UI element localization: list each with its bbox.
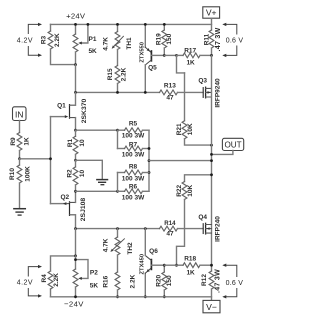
svg-text:4.7K: 4.7K xyxy=(103,37,110,51)
svg-text:Q4: Q4 xyxy=(198,214,207,221)
wire Q6 base line xyxy=(164,264,176,266)
svg-text:150: 150 xyxy=(166,275,173,286)
node jog junction xyxy=(175,54,178,57)
svg-text:4.2V: 4.2V xyxy=(17,37,33,44)
label 2SK370 xyxy=(81,98,88,123)
node Q5 emitter rail junction xyxy=(144,23,147,26)
resistor R15 xyxy=(107,50,128,93)
svg-text:+24V: +24V xyxy=(66,12,86,21)
svg-text:OUT: OUT xyxy=(224,141,241,150)
svg-text:R21: R21 xyxy=(176,123,183,135)
svg-text:10: 10 xyxy=(79,139,86,147)
resistor R9 xyxy=(10,133,31,159)
node bus2 P2 junction xyxy=(74,227,77,230)
wire V+ lead xyxy=(211,18,213,30)
node Q1 source junction xyxy=(74,129,77,132)
svg-text:2.2K: 2.2K xyxy=(121,67,128,81)
node bus R15 junction xyxy=(116,91,119,94)
svg-text:R22: R22 xyxy=(176,184,183,196)
resistor R14 xyxy=(160,220,178,237)
label IRFP240 xyxy=(215,216,222,242)
node P2 wiper junction xyxy=(74,258,77,261)
svg-text:100K: 100K xyxy=(25,166,32,182)
wire lower bus xyxy=(76,228,160,230)
resistor R17 xyxy=(177,47,212,66)
node P1 wiper junction xyxy=(87,23,90,26)
wire OUT lead xyxy=(212,151,233,155)
svg-text:4.7K: 4.7K xyxy=(103,238,110,252)
svg-text:2.2K: 2.2K xyxy=(53,273,60,287)
wire P1 bottom to bus xyxy=(75,65,77,93)
svg-text:.47 3W: .47 3W xyxy=(215,269,222,293)
wire output rail xyxy=(211,55,213,271)
wire R11 to node xyxy=(211,48,213,55)
resistor R10 xyxy=(9,159,32,208)
svg-text:R1: R1 xyxy=(67,138,74,147)
resistor R6 xyxy=(118,184,150,202)
node OUT junction xyxy=(210,153,213,156)
svg-text:R4: R4 xyxy=(41,274,48,283)
node bus2 Q6 junction xyxy=(144,227,147,230)
wire +24V rail xyxy=(51,23,212,25)
port IN xyxy=(13,107,27,121)
node R9/R10 junction xyxy=(18,157,21,160)
svg-text:Q6: Q6 xyxy=(149,248,158,255)
ground mid xyxy=(97,180,108,185)
node bank out junction xyxy=(148,159,151,162)
node R18/R12 junction xyxy=(210,264,213,267)
resistor R5 xyxy=(118,120,150,139)
node out bus rail junction xyxy=(210,159,213,162)
resistor R2 xyxy=(66,160,86,191)
node TH1 top junction xyxy=(116,23,119,26)
svg-text:−24V: −24V xyxy=(64,300,84,309)
node R20 top junction xyxy=(163,264,166,267)
transistor Q2 2SJ108 xyxy=(51,191,76,228)
svg-text:2SJ108: 2SJ108 xyxy=(80,198,87,222)
transistor Q3 IRFP9240 xyxy=(198,77,211,98)
svg-text:R10: R10 xyxy=(9,168,16,180)
node R21 out junction xyxy=(210,144,213,147)
svg-text:P1: P1 xyxy=(89,36,97,43)
svg-text:R7: R7 xyxy=(129,142,138,149)
label 2SJ108 xyxy=(80,198,87,222)
wire IN lead xyxy=(19,121,21,133)
svg-text:1K: 1K xyxy=(186,269,195,276)
svg-text:TH1: TH1 xyxy=(126,37,133,50)
node bus Q5 junction xyxy=(144,91,147,94)
svg-text:ZTX450: ZTX450 xyxy=(139,254,145,275)
svg-text:4.2V: 4.2V xyxy=(17,279,33,286)
port V+ xyxy=(203,7,220,18)
svg-text:IRFP240: IRFP240 xyxy=(215,216,222,242)
svg-text:R8: R8 xyxy=(129,164,138,171)
svg-text:R11: R11 xyxy=(204,33,211,45)
label 0.6V top xyxy=(226,37,244,44)
svg-text:R2: R2 xyxy=(66,169,73,178)
svg-text:47: 47 xyxy=(166,94,174,101)
transistor Q5 ZTX550 xyxy=(145,24,164,92)
svg-text:100 3W: 100 3W xyxy=(122,195,145,202)
resistor R1 xyxy=(67,130,86,160)
svg-text:10: 10 xyxy=(79,170,86,178)
svg-text:Q5: Q5 xyxy=(148,64,157,71)
potentiometer P1 xyxy=(73,24,97,64)
svg-text:0.6 V: 0.6 V xyxy=(226,280,244,287)
node bus2 TH2 junction xyxy=(116,227,119,230)
svg-text:5K: 5K xyxy=(88,48,97,55)
svg-text:R5: R5 xyxy=(129,120,138,127)
svg-text:5K: 5K xyxy=(90,282,99,289)
node R2 bottom junction xyxy=(74,190,77,193)
label ZTX450 xyxy=(139,254,145,275)
svg-text:R9: R9 xyxy=(10,137,17,146)
node R22 base junction xyxy=(175,264,178,267)
wire bank right stub xyxy=(148,130,150,191)
svg-text:ZTX550: ZTX550 xyxy=(140,42,146,63)
wire upper bus xyxy=(76,91,160,93)
svg-text:R20: R20 xyxy=(155,274,162,286)
node R16 rail junction xyxy=(116,295,119,298)
svg-text:100 3W: 100 3W xyxy=(122,176,145,183)
svg-text:.47 3W: .47 3W xyxy=(215,27,222,51)
resistor R11 xyxy=(204,27,222,51)
svg-text:IN: IN xyxy=(15,110,23,120)
label -24V xyxy=(64,300,84,309)
resistor R18 xyxy=(177,256,212,277)
svg-text:R16: R16 xyxy=(103,275,110,287)
wire source bus upper xyxy=(76,129,118,131)
node R17/R11 junction xyxy=(210,54,213,57)
resistor R4 xyxy=(41,256,75,297)
svg-text:0.6 V: 0.6 V xyxy=(226,37,244,44)
node R19 top junction xyxy=(163,23,166,26)
svg-text:Q3: Q3 xyxy=(198,77,207,84)
wire Q5 base line xyxy=(164,54,176,56)
port V- xyxy=(203,300,220,312)
resistor R12 xyxy=(201,269,222,300)
wire bus to Q3 gate xyxy=(178,91,204,93)
resistor R19 xyxy=(155,24,173,55)
resistor R8 xyxy=(118,164,150,183)
node P1 top junction xyxy=(74,23,77,26)
node bank R5 left junction xyxy=(116,129,119,132)
svg-text:150: 150 xyxy=(166,33,173,44)
svg-text:IRFP9240: IRFP9240 xyxy=(215,78,222,108)
svg-text:1K: 1K xyxy=(24,137,31,146)
resistor R21 xyxy=(176,73,211,145)
port OUT xyxy=(222,138,243,150)
svg-text:R17: R17 xyxy=(184,47,196,54)
node R8 right junction xyxy=(148,171,151,174)
annotation 4.2V bottom bracket xyxy=(28,265,42,298)
svg-text:R15: R15 xyxy=(107,68,114,80)
svg-text:1K: 1K xyxy=(186,59,195,66)
svg-text:100 3W: 100 3W xyxy=(122,152,145,159)
wire Q2 drain to P2 xyxy=(75,229,77,256)
svg-text:P2: P2 xyxy=(90,269,98,276)
resistor R16 xyxy=(103,255,137,297)
svg-text:R18: R18 xyxy=(184,256,196,263)
wire -24V rail xyxy=(51,296,212,298)
node gate tap junction xyxy=(49,157,52,160)
svg-text:2SK370: 2SK370 xyxy=(81,98,88,123)
node R20 rail junction xyxy=(163,295,166,298)
svg-text:2.2K: 2.2K xyxy=(130,274,137,288)
wire source bus lower xyxy=(76,190,118,192)
resistor R3 xyxy=(41,24,76,64)
resistor R20 xyxy=(155,265,173,297)
node bus P1 junction xyxy=(74,91,77,94)
label 0.6V bottom xyxy=(226,280,244,287)
node P2 rail junction xyxy=(74,295,77,298)
node Q6 emitter rail junction xyxy=(144,295,147,298)
svg-text:R6: R6 xyxy=(129,184,138,191)
svg-text:10K: 10K xyxy=(187,123,194,135)
ground under R10 xyxy=(14,209,25,215)
transistor Q4 IRFP240 xyxy=(198,214,211,234)
wire input node xyxy=(20,117,51,204)
annotation 0.6V bottom bracket xyxy=(222,264,237,299)
label 4.2V top xyxy=(17,37,33,44)
label +24V xyxy=(66,12,86,21)
node R1/R2 junction xyxy=(74,159,77,162)
wire out bus xyxy=(149,160,212,162)
annotation 0.6V top bracket xyxy=(222,23,237,57)
label 4.2V bottom xyxy=(17,279,33,286)
transistor Q6 ZTX450 xyxy=(145,229,164,297)
svg-text:100 3W: 100 3W xyxy=(122,132,145,139)
thermistor TH2 xyxy=(103,229,134,255)
svg-text:Q2: Q2 xyxy=(60,194,69,201)
svg-text:TH2: TH2 xyxy=(127,242,134,255)
resistor R22 xyxy=(176,175,211,265)
wire bus2 to Q4 gate xyxy=(178,228,204,230)
node R4/P2 junction xyxy=(74,255,77,258)
transistor Q1 2SK370 xyxy=(51,92,76,130)
svg-text:R12: R12 xyxy=(201,274,208,286)
wire jog to R21 xyxy=(177,55,185,73)
wire bank left stub upper xyxy=(117,130,119,148)
svg-text:V−: V− xyxy=(206,302,217,312)
svg-text:R3: R3 xyxy=(41,35,48,44)
resistor R7 xyxy=(118,142,150,159)
svg-text:R14: R14 xyxy=(164,220,176,227)
svg-text:R19: R19 xyxy=(155,33,162,45)
label ZTX550 xyxy=(140,42,146,63)
label IRFP9240 xyxy=(215,78,222,108)
svg-text:Q1: Q1 xyxy=(57,103,66,110)
potentiometer P2 xyxy=(73,256,98,297)
svg-text:10K: 10K xyxy=(187,185,194,197)
node bank R6 left junction xyxy=(116,190,119,193)
wire bank left stub lower xyxy=(117,173,119,192)
node R22 rail junction xyxy=(210,173,213,176)
svg-text:47: 47 xyxy=(166,231,174,238)
node R7 right junction xyxy=(148,147,151,150)
svg-text:2.2K: 2.2K xyxy=(54,33,61,47)
resistor R13 xyxy=(160,83,178,102)
annotation 4.2V top bracket xyxy=(28,23,42,57)
svg-text:R13: R13 xyxy=(164,83,176,90)
node R3/P1 bottom junction xyxy=(74,63,77,66)
wire to signal ground xyxy=(76,160,103,179)
svg-text:V+: V+ xyxy=(206,8,217,18)
node R19 base junction xyxy=(163,54,166,57)
thermistor TH1 xyxy=(103,24,133,50)
